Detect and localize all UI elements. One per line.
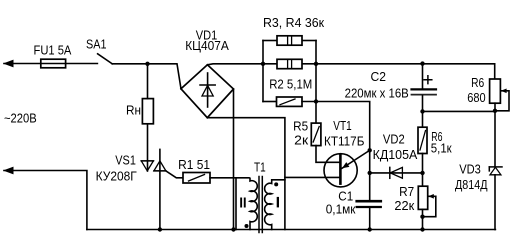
svg-text:C2: C2 xyxy=(371,70,387,84)
svg-text:КД105А: КД105А xyxy=(373,148,418,162)
svg-text:FU1 5A: FU1 5A xyxy=(34,44,72,58)
svg-text:2к: 2к xyxy=(294,134,308,148)
svg-text:VD2: VD2 xyxy=(383,132,405,146)
svg-text:R7: R7 xyxy=(399,185,414,199)
svg-text:КУ208Г: КУ208Г xyxy=(96,169,137,183)
svg-text:R6: R6 xyxy=(471,76,484,90)
svg-text:680: 680 xyxy=(467,91,485,105)
svg-text:220мк x 16В: 220мк x 16В xyxy=(345,86,409,100)
svg-text:VS1: VS1 xyxy=(115,153,136,167)
svg-text:Д814Д: Д814Д xyxy=(455,178,488,192)
svg-text:22к: 22к xyxy=(394,199,414,213)
svg-text:~220В: ~220В xyxy=(4,112,37,126)
svg-text:Rн: Rн xyxy=(126,104,141,118)
svg-text:5,1к: 5,1к xyxy=(431,142,452,156)
svg-text:КЦ407А: КЦ407А xyxy=(185,39,229,53)
svg-text:0,1мк: 0,1мк xyxy=(326,203,356,217)
svg-text:R5: R5 xyxy=(293,120,308,134)
svg-text:R3, R4 36к: R3, R4 36к xyxy=(263,16,325,30)
svg-text:R1 51: R1 51 xyxy=(178,158,210,172)
svg-text:VD3: VD3 xyxy=(459,162,481,176)
svg-text:R2 5,1M: R2 5,1M xyxy=(269,77,312,91)
svg-text:КТ117Б: КТ117Б xyxy=(324,135,364,149)
svg-text:SA1: SA1 xyxy=(86,38,107,52)
svg-text:T1: T1 xyxy=(254,160,266,174)
svg-text:C1: C1 xyxy=(338,189,353,203)
svg-text:VT1: VT1 xyxy=(333,119,351,133)
